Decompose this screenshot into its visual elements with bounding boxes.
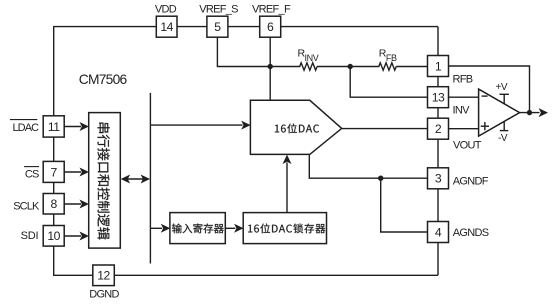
pin 11 (LDAC) — [43, 116, 64, 137]
svg-text:5: 5 — [214, 20, 221, 34]
wire: DAC latch up to DAC (arrow) — [286, 163, 288, 213]
pin 1 (RFB) — [428, 56, 449, 77]
svg-text:INV: INV — [305, 53, 319, 63]
wire: AGNDF node to pin 4 AGNDS — [381, 178, 428, 232]
svg-text:SCLK: SCLK — [13, 201, 40, 213]
wire: input register to DAC latch (arrow) — [225, 227, 235, 229]
pin 8 (SCLK) — [43, 194, 64, 215]
svg-text:6: 6 — [267, 20, 274, 34]
svg-text:4: 4 — [435, 225, 442, 239]
svg-text:CM7506: CM7506 — [79, 72, 128, 87]
wire: right pin column vertical — [437, 27, 439, 276]
svg-text:AGNDS: AGNDS — [453, 227, 489, 239]
pin 3 (AGNDF) — [428, 168, 449, 189]
op-amp non-inverting input mark — [481, 125, 489, 127]
pin 14 (VDD) — [156, 16, 177, 37]
wire: pin 13 to op-amp inverting input — [449, 96, 479, 98]
wire: op-amp output with arrow — [520, 112, 540, 114]
wire: left pin column vertical — [53, 26, 55, 275]
wire: VREF_F drop to reference node — [269, 37, 271, 66]
wire: bus to DAC input (arrow) — [150, 124, 242, 126]
pin 5 (VREF_S) — [207, 16, 228, 37]
wire: SDI pin 10 to serial logic (arrow) — [64, 235, 81, 237]
pin 4 (AGNDS) — [428, 222, 449, 243]
op-amp inverting input mark — [482, 95, 488, 97]
power +V — [500, 93, 509, 95]
wire: reference node down to 16-bit DAC — [269, 67, 271, 101]
op-amp U1 — [479, 89, 520, 136]
svg-text:INV: INV — [453, 105, 471, 117]
wire: SCLK pin 8 to serial logic (arrow) — [64, 203, 81, 205]
svg-text:LDAC: LDAC — [12, 122, 39, 134]
block: 16-bit DAC latch 16位DAC锁存器 — [243, 213, 326, 244]
svg-text:SDI: SDI — [21, 230, 39, 242]
wire: DAC ground to pin 3 AGNDF — [309, 154, 427, 178]
wire: node between resistors down to pin 13 — [350, 67, 427, 98]
svg-text:+V: +V — [495, 82, 507, 93]
pin 10 (SDI) — [43, 226, 64, 247]
pin 13 (INV) — [428, 87, 449, 108]
wire: serial logic to bus (double arrow) — [127, 178, 145, 180]
svg-text:7: 7 — [51, 165, 58, 179]
wire: CS pin 7 to serial logic (arrow) — [64, 171, 81, 173]
svg-text:VREF_S: VREF_S — [199, 3, 238, 15]
junction: R_INV/R_FB node — [348, 64, 353, 69]
power -V — [503, 121, 505, 130]
wire: LDAC pin 11 to serial logic (arrow) — [64, 126, 81, 128]
svg-text:FB: FB — [386, 53, 397, 63]
junction: reference node — [268, 64, 273, 69]
junction: op-amp output node — [527, 110, 532, 115]
wire: bottom DGND bus — [53, 274, 438, 276]
svg-text:DGND: DGND — [89, 289, 119, 301]
wire: bus to input register (arrow) — [150, 227, 162, 229]
svg-text:10: 10 — [47, 229, 60, 243]
pin 2 (VOUT) — [428, 118, 449, 139]
wire: pin 1 feedback to op-amp output — [449, 66, 530, 113]
svg-text:1: 1 — [435, 59, 442, 73]
resistor R_FB — [317, 63, 396, 70]
svg-text:CS: CS — [25, 168, 39, 180]
svg-text:RFB: RFB — [453, 74, 473, 86]
pin 12 (DGND) — [93, 265, 115, 286]
wire: R_FB to pin 1 — [396, 66, 427, 68]
block: serial interface and control logic — [89, 113, 121, 249]
wire: internal data bus vertical — [149, 93, 151, 264]
svg-text:VOUT: VOUT — [453, 139, 482, 151]
svg-text:3: 3 — [435, 172, 442, 186]
block: input register 输入寄存器 — [170, 213, 225, 244]
svg-text:12: 12 — [97, 269, 110, 283]
pin 6 (VREF_F) — [260, 16, 281, 37]
wire: VDD/VREF top bus — [54, 26, 438, 28]
svg-text:13: 13 — [432, 91, 445, 105]
wire: VREF_S drop to reference node — [217, 37, 270, 66]
svg-text:VREF_F: VREF_F — [252, 3, 291, 15]
junction: AGNDF node — [378, 176, 383, 181]
svg-text:11: 11 — [48, 120, 60, 134]
svg-text:VDD: VDD — [155, 3, 177, 15]
pin 7 (CS) — [43, 161, 64, 182]
label: 串行接口和控制逻辑 (vertical) — [98, 123, 110, 240]
resistor R_INV — [270, 63, 317, 70]
svg-text:AGNDF: AGNDF — [453, 175, 489, 187]
svg-text:2: 2 — [435, 122, 442, 136]
svg-text:14: 14 — [160, 20, 173, 34]
svg-text:-V: -V — [498, 133, 508, 144]
svg-text:8: 8 — [51, 197, 58, 211]
wire: DAC output to pin 2 — [342, 128, 428, 130]
wire: pin 2 to op-amp non-inverting input — [449, 128, 479, 130]
block: 16-bit DAC (pentagon) — [250, 100, 341, 154]
